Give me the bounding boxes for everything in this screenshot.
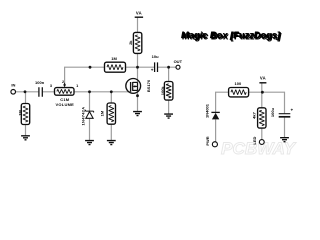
svg-text:+: + xyxy=(290,108,293,113)
svg-text:VA: VA xyxy=(260,75,266,80)
svg-text:VA: VA xyxy=(136,11,142,16)
svg-text:1N4001: 1N4001 xyxy=(205,103,210,118)
svg-text:1M: 1M xyxy=(99,110,104,116)
svg-text:2: 2 xyxy=(62,80,64,84)
svg-text:1: 1 xyxy=(76,84,78,88)
svg-text:PWR: PWR xyxy=(205,136,210,145)
svg-text:BS170: BS170 xyxy=(146,79,151,92)
svg-text:100n: 100n xyxy=(35,80,45,85)
svg-text:+: + xyxy=(151,67,154,72)
svg-text:10u: 10u xyxy=(152,54,159,59)
svg-text:100k: 100k xyxy=(160,86,165,96)
svg-text:VOLUME: VOLUME xyxy=(55,102,74,107)
svg-text:1M: 1M xyxy=(111,56,117,61)
svg-text:2k: 2k xyxy=(128,40,133,45)
svg-text:OUT: OUT xyxy=(174,59,183,64)
svg-text:1M: 1M xyxy=(18,110,23,116)
svg-text:4k7: 4k7 xyxy=(252,111,257,118)
svg-text:100u: 100u xyxy=(270,107,275,117)
svg-text:IN: IN xyxy=(11,83,15,88)
svg-text:1N4742A: 1N4742A xyxy=(80,106,85,125)
svg-text:3: 3 xyxy=(50,84,52,88)
svg-text:100: 100 xyxy=(235,81,242,86)
svg-text:LED: LED xyxy=(252,136,257,144)
svg-text:Magic Box [FuzzDogs]: Magic Box [FuzzDogs] xyxy=(182,31,282,42)
